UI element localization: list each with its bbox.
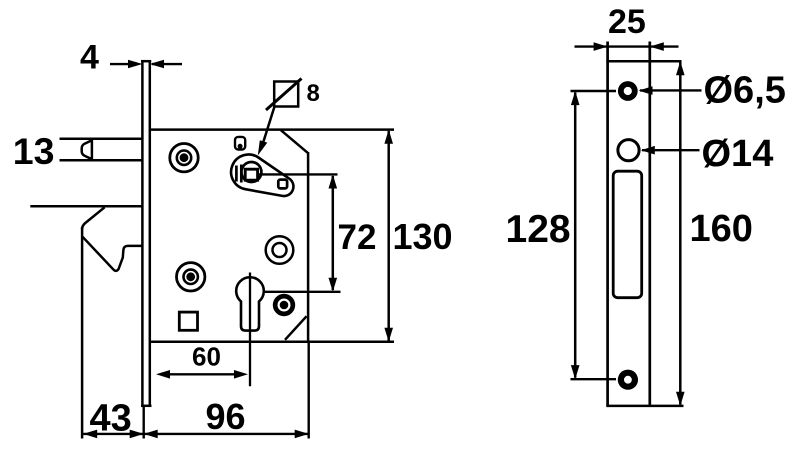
dim 160 vertical line with arrows: [679, 63, 682, 405]
dim 4 arrow left: [110, 60, 143, 69]
latch top line: [60, 138, 142, 141]
svg-text:160: 160: [690, 208, 753, 250]
dim 96 line with arrows: [144, 430, 309, 439]
svg-text:Ø14: Ø14: [702, 133, 774, 175]
lever small square hole: [278, 180, 287, 189]
leader line for Ø6,5: [640, 89, 702, 91]
128 top extension line: [571, 90, 617, 92]
svg-text:128: 128: [506, 208, 571, 251]
latch bottom line: [60, 159, 142, 162]
svg-text:8: 8: [307, 80, 320, 107]
top-left screw rivet: [170, 144, 198, 172]
svg-text:Ø6,5: Ø6,5: [704, 69, 786, 111]
black screw near cylinder: [273, 294, 295, 316]
euro profile cylinder: [236, 277, 264, 330]
spindle square diagonal: [266, 79, 302, 111]
svg-text:72: 72: [338, 218, 377, 257]
cam disc circle: [266, 236, 294, 264]
plate bottom cap with 160 extension: [606, 405, 683, 408]
plate right edge: [648, 42, 651, 406]
follower square spindle hole: [245, 169, 257, 180]
dim 72 vertical line with arrows: [332, 176, 335, 290]
faceplate top cap: [141, 60, 151, 63]
svg-text:4: 4: [80, 39, 99, 77]
top screw hole: [618, 81, 638, 101]
spindle square symbol: [274, 82, 298, 107]
43/96 middle extension line: [142, 407, 144, 439]
lower-left screw rivet: [177, 263, 205, 291]
body right edge: [307, 152, 310, 342]
plate left edge: [606, 42, 609, 406]
faceplate bottom cap: [141, 405, 152, 408]
svg-text:130: 130: [393, 216, 453, 257]
svg-text:13: 13: [13, 130, 55, 172]
faceplate side view left line: [141, 61, 144, 406]
Ø14 hole: [618, 140, 639, 161]
bottom screw hole: [618, 370, 638, 390]
svg-text:60: 60: [192, 342, 221, 372]
latch head: [82, 140, 92, 160]
dim 130 vertical line with arrows: [387, 131, 390, 341]
60 extension line through cylinder: [249, 273, 251, 387]
body bottom-right chamfer mark: [285, 316, 307, 340]
body top-right chamfer: [281, 130, 308, 153]
dim 4 arrow right: [150, 60, 183, 69]
plate top cap with 160 extension: [606, 60, 681, 63]
128 bottom extension line: [571, 378, 617, 380]
svg-text:96: 96: [206, 396, 246, 437]
faceplate side view right line: [149, 61, 152, 406]
follower left knurl bars: [235, 166, 238, 182]
follower inner circle: [241, 162, 261, 182]
body bottom edge with 130 extension: [150, 341, 394, 344]
faceplate slot rounded rect: [613, 171, 642, 298]
dim 25 line with arrows: [575, 42, 679, 51]
detent pin above follower: [235, 137, 245, 150]
lock body top edge with 130 extension: [150, 128, 394, 131]
72 top extension line: [258, 173, 338, 175]
square hole lower left: [179, 312, 197, 330]
dim 128 vertical line with arrows: [574, 93, 577, 378]
leader line for Ø14: [642, 149, 700, 151]
dim 60 line with arrows: [156, 370, 248, 379]
svg-text:43: 43: [90, 397, 132, 439]
hook housing top line: [30, 205, 141, 208]
dim 43 line with arrows: [83, 430, 144, 439]
72 bottom extension line: [264, 291, 341, 293]
43/96 right extension line (body): [308, 342, 310, 439]
hook left edge / dim 43 extension line: [81, 227, 84, 439]
svg-text:25: 25: [608, 3, 646, 41]
leader arrow to follower: [263, 107, 275, 144]
hook upper bevel: [82, 207, 105, 229]
follower lever outline: [231, 154, 293, 196]
hook nose outline: [82, 236, 141, 271]
